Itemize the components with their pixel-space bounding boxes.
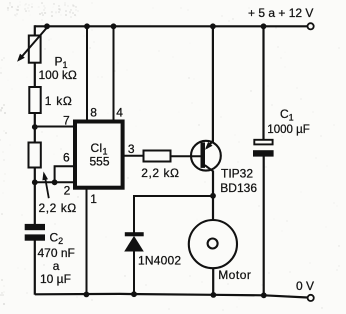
svg-text:BD136: BD136 xyxy=(220,181,257,195)
junction: pin2 node on left branch xyxy=(32,179,38,185)
IC CI1 555 body xyxy=(75,122,123,188)
wire: below C2 to 0V rail xyxy=(34,240,36,294)
pin label 4 xyxy=(116,106,123,120)
label: C1 xyxy=(280,107,294,123)
terminal: +V input xyxy=(308,23,314,29)
wire: C1 bottom to 0V rail xyxy=(263,156,265,296)
resistor 2.2k (left) body xyxy=(29,143,41,168)
svg-text:555: 555 xyxy=(90,155,110,169)
wire: pin 6 L-shape to IC xyxy=(55,166,74,182)
wire: diode branch horizontal xyxy=(134,195,213,197)
svg-text:1: 1 xyxy=(90,192,97,206)
label: 1N4002 xyxy=(138,254,181,268)
svg-text:470 nF: 470 nF xyxy=(38,246,75,260)
svg-text:2,2 kΩ: 2,2 kΩ xyxy=(39,201,77,215)
label: +5 a +12 V supply xyxy=(248,6,313,20)
wire: emitter to +V rail xyxy=(212,26,214,142)
motor shaft inner circle xyxy=(208,239,218,249)
svg-text:0 V: 0 V xyxy=(296,279,314,293)
junction: collector/diode node xyxy=(210,193,216,199)
label: 2,2 kOhm (base) xyxy=(141,166,179,180)
wire: left vertical branch (P1/1k/2.2k/C2 chain) xyxy=(34,25,36,224)
junction: emitter at +V rail xyxy=(210,23,216,29)
transistor emitter with arrow (PNP) xyxy=(205,141,213,150)
svg-text:TIP32: TIP32 xyxy=(221,167,253,181)
svg-text:+ 5 a + 12 V: + 5 a + 12 V xyxy=(248,6,313,20)
pin label 2 xyxy=(64,184,71,198)
label: 555 xyxy=(90,155,110,169)
wire: pin 3 stub xyxy=(124,155,144,157)
junction: diode at 0V rail xyxy=(131,291,137,297)
svg-text:3: 3 xyxy=(128,142,135,156)
diode 1N4002 cathode bar xyxy=(125,232,144,236)
diode 1N4002 triangle xyxy=(124,236,144,252)
pin label 3 xyxy=(128,142,135,156)
label: a xyxy=(53,259,60,273)
annotation arrow to 2.2k resistor xyxy=(42,172,48,199)
transistor Q1 TIP32/BD136 circle xyxy=(191,141,221,171)
svg-text:2: 2 xyxy=(64,184,71,198)
label: CI1 xyxy=(91,141,108,157)
wire: C1 top to +V rail xyxy=(262,26,264,140)
svg-text:6: 6 xyxy=(63,151,70,165)
wire: motor to 0V rail xyxy=(212,269,214,296)
transistor collector diagonal xyxy=(205,165,213,171)
svg-text:10 µF: 10 µF xyxy=(40,272,71,286)
pin label 6 xyxy=(63,151,70,165)
label: BD136 xyxy=(220,181,257,195)
wire: pin 8 to +V rail xyxy=(86,26,88,121)
label: TIP32 xyxy=(221,167,253,181)
wire: base resistor to transistor xyxy=(171,155,202,157)
svg-text:Motor: Motor xyxy=(218,268,251,282)
svg-text:100 kΩ: 100 kΩ xyxy=(39,68,77,82)
label: P1 xyxy=(55,54,68,70)
label: 0 V xyxy=(296,279,314,293)
junction: pin 8 at rail xyxy=(84,23,90,29)
potentiometer P1 wiper arrow xyxy=(17,28,47,62)
label: 1 kOhm xyxy=(45,94,73,108)
junction: wiper to +V rail xyxy=(44,23,50,29)
transistor base bar xyxy=(201,142,206,168)
capacitor C2 top plate xyxy=(25,224,45,230)
junction: C1 at 0V rail xyxy=(261,292,267,298)
label: 470 nF xyxy=(38,246,75,260)
wire: +V top rail xyxy=(35,25,308,27)
svg-text:2,2 kΩ: 2,2 kΩ xyxy=(141,166,179,180)
junction: pin 4 at rail xyxy=(111,23,117,29)
label: Motor xyxy=(218,268,251,282)
resistor 1k body xyxy=(29,87,40,113)
junction: node pin7 on left branch xyxy=(32,124,38,130)
pin label 7 xyxy=(63,114,70,128)
label: 100 kOhm xyxy=(39,68,77,82)
label: 2,2 kOhm (left) xyxy=(39,201,77,215)
wire: pin 7 to IC xyxy=(35,126,74,128)
pin label 8 xyxy=(90,106,97,120)
capacitor C1 negative plate (solid) xyxy=(253,150,274,156)
wire: pin 1 to 0V rail xyxy=(86,188,88,295)
svg-text:1N4002: 1N4002 xyxy=(138,254,181,268)
motor M1 outer circle xyxy=(189,220,237,268)
wire: pin 2 to IC xyxy=(35,181,74,183)
wire: diode branch vertical upper xyxy=(133,195,135,233)
svg-text:a: a xyxy=(53,259,60,273)
capacitor C2 bottom plate xyxy=(25,234,45,240)
label: C2 xyxy=(50,231,64,247)
junction: motor at 0V rail xyxy=(211,292,217,298)
potentiometer P1 body xyxy=(29,36,41,63)
svg-text:4: 4 xyxy=(116,106,123,120)
svg-text:7: 7 xyxy=(63,114,70,128)
resistor 2.2k base (horizontal) body xyxy=(144,151,171,162)
label: 10 uF xyxy=(40,272,71,286)
wire: pin 4 to +V rail xyxy=(113,26,115,121)
capacitor C1 positive plate (hollow) xyxy=(254,140,272,145)
wire: diode to 0V rail xyxy=(133,251,135,295)
label: 1000 uF xyxy=(267,124,309,136)
junction: pin 1 at 0V rail xyxy=(84,292,90,298)
junction: pin6 drop on pin2 wire xyxy=(52,179,58,185)
wire: collector down to motor node xyxy=(212,171,214,220)
svg-text:8: 8 xyxy=(90,106,97,120)
pin label 1 xyxy=(90,192,97,206)
svg-text:1 kΩ: 1 kΩ xyxy=(45,94,73,108)
wire: 0V bottom rail xyxy=(35,294,308,298)
junction: C1 at +V rail xyxy=(261,23,267,29)
svg-text:1000 µF: 1000 µF xyxy=(267,124,309,136)
terminal: 0V xyxy=(308,295,314,301)
